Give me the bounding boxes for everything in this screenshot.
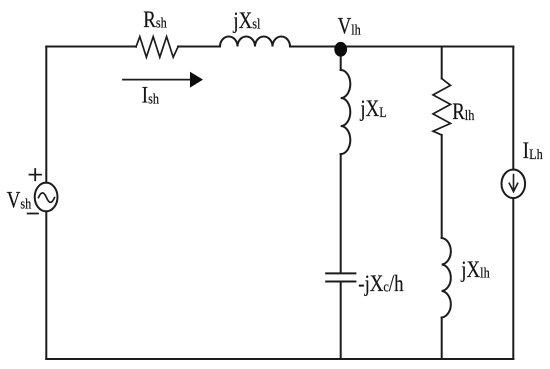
svg-text:-jXc/h: -jXc/h (358, 270, 404, 296)
svg-text:jXlh: jXlh (460, 256, 489, 282)
svg-text:Rsh: Rsh (143, 6, 167, 32)
svg-text:Rlh: Rlh (452, 98, 474, 124)
svg-text:jXL: jXL (360, 95, 387, 121)
svg-text:Ish: Ish (142, 82, 159, 108)
svg-text:jXsl: jXsl (233, 7, 261, 33)
svg-text:Vlh: Vlh (338, 13, 361, 39)
svg-text:Vsh: Vsh (7, 187, 32, 213)
svg-text:ILh: ILh (523, 137, 543, 163)
